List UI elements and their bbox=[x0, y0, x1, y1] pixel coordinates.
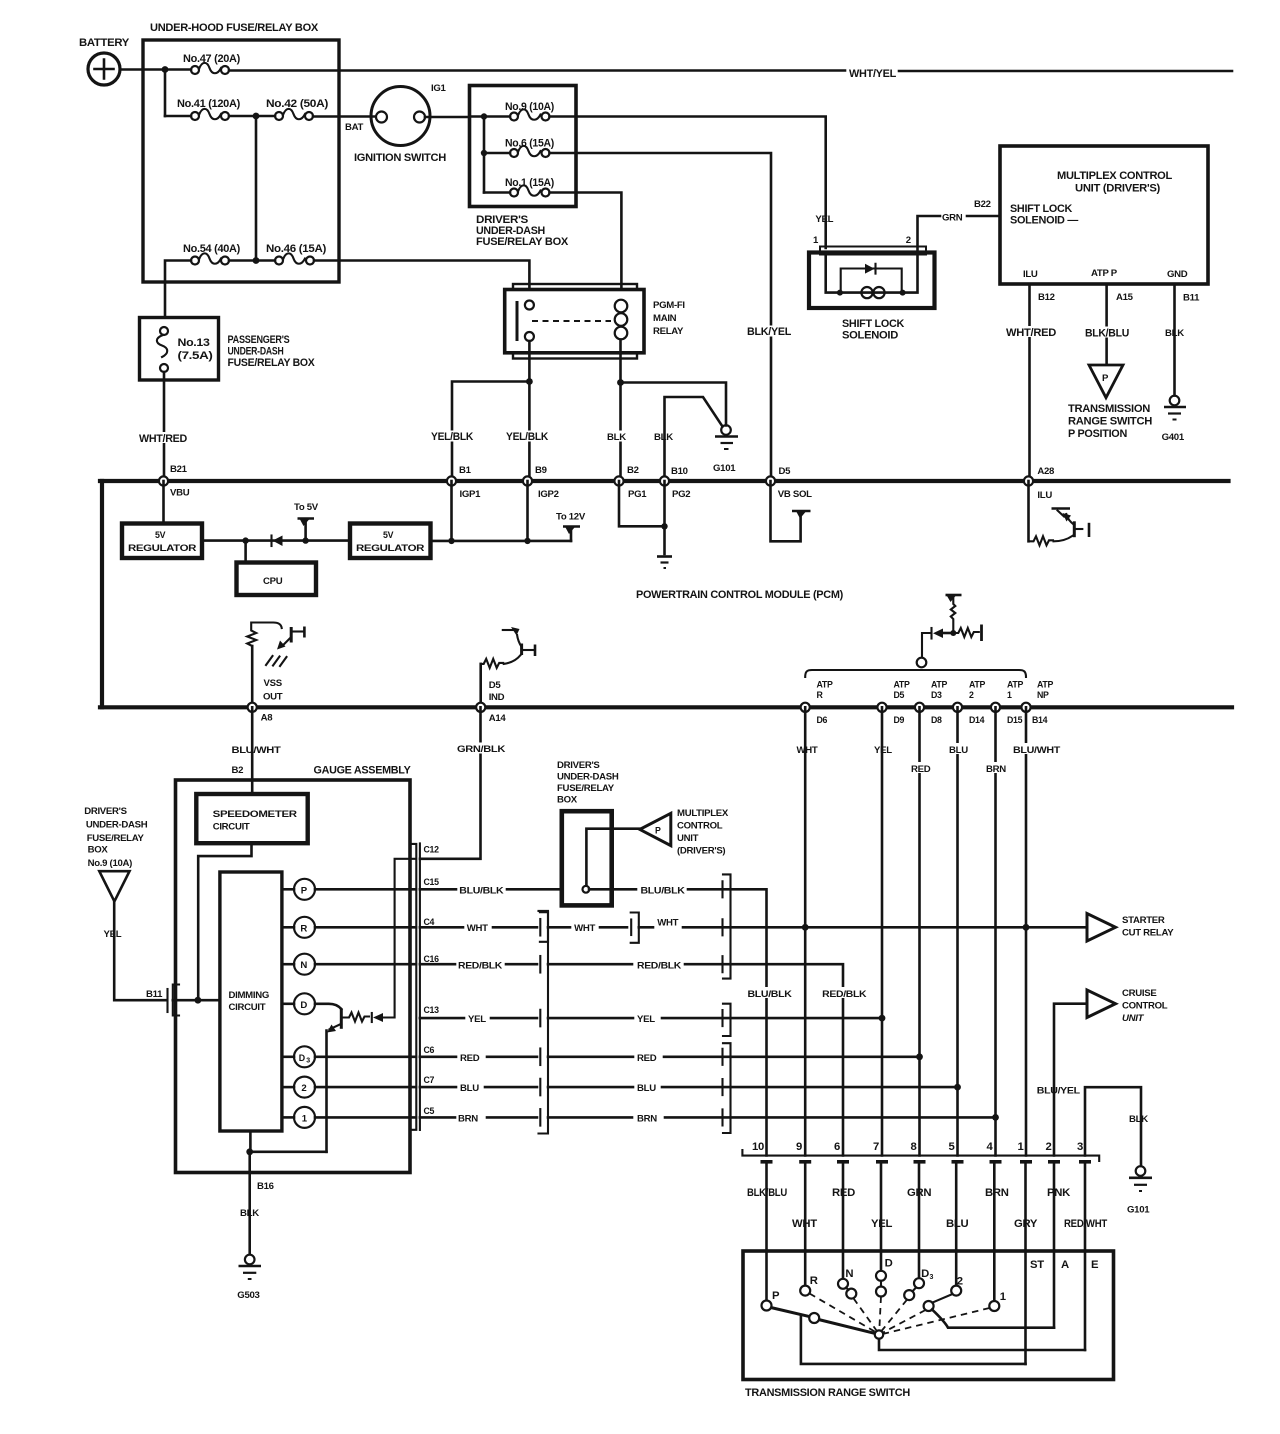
svg-text:BRN: BRN bbox=[458, 1113, 478, 1124]
svg-text:A15: A15 bbox=[1116, 292, 1134, 303]
svg-text:(7.5A): (7.5A) bbox=[178, 350, 214, 362]
svg-text:10: 10 bbox=[752, 1141, 764, 1153]
svg-text:NP: NP bbox=[1037, 690, 1049, 700]
fuse No.42 (50A) bbox=[266, 98, 329, 120]
svg-text:To 12V: To 12V bbox=[556, 512, 586, 523]
To 12V tap symbol bbox=[556, 512, 586, 541]
link D upper lower bbox=[880, 1281, 882, 1287]
svg-text:YEL: YEL bbox=[104, 929, 122, 940]
dimmer transistor bbox=[315, 859, 416, 1152]
pin C13 row YEL bbox=[420, 1005, 537, 1025]
fuse No.13 (7.5A) bbox=[157, 327, 213, 372]
wire BLU D14 down bbox=[947, 707, 971, 1155]
svg-text:CONTROL: CONTROL bbox=[677, 821, 723, 832]
svg-text:B22: B22 bbox=[974, 199, 991, 210]
svg-text:D5: D5 bbox=[489, 680, 502, 691]
svg-text:No.9 (10A): No.9 (10A) bbox=[88, 858, 133, 869]
svg-text:BLK/BLU: BLK/BLU bbox=[1085, 328, 1129, 340]
svg-text:VB SOL: VB SOL bbox=[778, 489, 812, 500]
svg-text:BOX: BOX bbox=[557, 795, 578, 806]
wire color labels at switch bbox=[747, 1187, 1107, 1230]
wire BRN D15 down bbox=[984, 707, 1009, 1155]
wire WHT/RED multiplex ILU to PCM A28 bbox=[1005, 284, 1057, 477]
node B9 rail bbox=[524, 538, 530, 544]
wire fuse41 to fuse42 bbox=[229, 115, 275, 118]
wire row2 junction down to row3 bbox=[255, 116, 258, 261]
svg-text:TRANSMISSION: TRANSMISSION bbox=[1068, 403, 1150, 415]
svg-text:VSS: VSS bbox=[264, 678, 283, 689]
wire BLK B10 to ground G101 bbox=[654, 397, 723, 477]
in-line connector C5 bbox=[539, 1109, 541, 1126]
fuse No.46 (15A) bbox=[266, 243, 327, 265]
svg-text:FUSE/RELAY: FUSE/RELAY bbox=[87, 833, 145, 844]
svg-text:ATP: ATP bbox=[969, 680, 985, 690]
wire BLU/YEL range switch pin 3 to G101 bbox=[1037, 1086, 1148, 1166]
svg-text:IGNITION SWITCH: IGNITION SWITCH bbox=[354, 152, 446, 164]
wire IG1 to driver's under-dash box bbox=[425, 116, 470, 119]
in-line connector C4 b bbox=[631, 913, 639, 943]
svg-text:UNDER-DASH: UNDER-DASH bbox=[228, 346, 284, 358]
svg-text:5V: 5V bbox=[383, 530, 394, 540]
svg-text:GRN: GRN bbox=[942, 213, 963, 224]
svg-text:BATTERY: BATTERY bbox=[79, 37, 130, 49]
svg-text:BLK/YEL: BLK/YEL bbox=[747, 326, 791, 338]
dimmer ground rail bbox=[250, 1131, 327, 1152]
ATP pull-up network bbox=[922, 595, 982, 657]
wire BLU to ATP 2 bbox=[548, 1083, 958, 1094]
wire BLU/WHT A8 to gauge B2 bbox=[232, 707, 281, 794]
svg-text:A8: A8 bbox=[261, 713, 274, 724]
ground G401 bbox=[1162, 396, 1186, 443]
wire BLK gauge B16 to G503 bbox=[240, 1152, 274, 1254]
svg-text:B11: B11 bbox=[1183, 293, 1200, 304]
node dimmer ground junction bbox=[246, 1148, 253, 1155]
wire stubs connector to switch bbox=[767, 1164, 1086, 1364]
svg-text:R: R bbox=[817, 690, 824, 700]
svg-text:C12: C12 bbox=[424, 845, 440, 855]
pin D6 ATP R bbox=[801, 680, 833, 726]
svg-text:ILU: ILU bbox=[1037, 490, 1052, 501]
CPU bbox=[237, 541, 317, 595]
svg-text:GRY: GRY bbox=[1014, 1218, 1038, 1230]
pin B9 IGP2 bbox=[523, 465, 559, 500]
svg-text:CPU: CPU bbox=[263, 576, 283, 587]
pin B1 IGP1 bbox=[447, 465, 481, 500]
wire battery to under-hood box bbox=[120, 68, 165, 71]
driver's under-dash box (C12 pass-through) bbox=[557, 760, 619, 905]
PCM left edge bbox=[100, 481, 104, 707]
svg-text:R: R bbox=[300, 923, 307, 934]
svg-text:BLK: BLK bbox=[240, 1208, 259, 1219]
svg-text:A14: A14 bbox=[489, 713, 507, 724]
pin C7 row BLU bbox=[420, 1075, 537, 1094]
svg-text:2: 2 bbox=[969, 690, 974, 700]
speedometer circuit box bbox=[196, 794, 307, 843]
battery bbox=[79, 37, 130, 85]
svg-text:No.9 (10A): No.9 (10A) bbox=[505, 101, 554, 113]
dimming circuit box bbox=[220, 872, 282, 1131]
svg-text:BRN: BRN bbox=[986, 764, 1006, 775]
inner contact N side bbox=[846, 1289, 856, 1299]
in-line connector C4 a bbox=[540, 912, 548, 942]
passenger's under-dash fuse/relay box bbox=[140, 318, 316, 381]
wire fuse46 to PGM-FI relay contact bbox=[314, 261, 529, 301]
indicator N bbox=[282, 954, 416, 975]
svg-text:IG1: IG1 bbox=[431, 83, 447, 94]
svg-text:DRIVER'S: DRIVER'S bbox=[557, 760, 600, 771]
wire junction drop to row 2 bbox=[164, 70, 167, 117]
svg-text:1: 1 bbox=[1007, 690, 1012, 700]
svg-text:GRN/BLK: GRN/BLK bbox=[457, 744, 505, 755]
wire coil branch to ground G101 bbox=[621, 383, 727, 426]
contact D upper bbox=[876, 1271, 886, 1281]
svg-text:8: 8 bbox=[911, 1141, 917, 1153]
svg-text:RELAY: RELAY bbox=[653, 326, 684, 337]
indicator D bbox=[282, 993, 315, 1014]
svg-text:D9: D9 bbox=[894, 715, 905, 725]
svg-text:No.54 (40A): No.54 (40A) bbox=[183, 243, 241, 255]
wire GRN solenoid pin2 to multiplex B22 bbox=[918, 199, 1001, 254]
svg-text:MULTIPLEX CONTROL: MULTIPLEX CONTROL bbox=[1057, 170, 1172, 182]
svg-text:MAIN: MAIN bbox=[653, 313, 677, 324]
svg-text:P: P bbox=[655, 826, 661, 836]
svg-text:YEL/BLK: YEL/BLK bbox=[506, 431, 549, 443]
diode CPU rail bbox=[246, 536, 306, 547]
svg-text:UNDER-HOOD FUSE/RELAY BOX: UNDER-HOOD FUSE/RELAY BOX bbox=[150, 22, 319, 34]
svg-text:BLK: BLK bbox=[1129, 1114, 1148, 1125]
fuse feed triangle bbox=[99, 871, 129, 901]
contact D lower bbox=[876, 1287, 886, 1297]
node B2/B10 ground join bbox=[661, 523, 667, 529]
svg-text:No.6 (15A): No.6 (15A) bbox=[505, 138, 554, 150]
indicator R bbox=[282, 917, 416, 938]
svg-text:FUSE/RELAY: FUSE/RELAY bbox=[557, 783, 615, 794]
svg-text:GRN: GRN bbox=[907, 1187, 931, 1199]
link N to inner bbox=[846, 1288, 849, 1291]
svg-text:WHT/RED: WHT/RED bbox=[139, 433, 187, 445]
wire relay coil to B2 bbox=[605, 340, 629, 478]
svg-text:C7: C7 bbox=[424, 1075, 435, 1085]
svg-text:ATP: ATP bbox=[1007, 680, 1023, 690]
node row3 junction bbox=[253, 257, 260, 264]
svg-text:YEL: YEL bbox=[871, 1218, 892, 1230]
svg-text:BLU/BLK: BLU/BLK bbox=[459, 886, 503, 897]
node driver's box feed row1 bbox=[481, 113, 487, 119]
pin A8 bbox=[248, 703, 274, 724]
wire WHT connector link bbox=[548, 923, 627, 934]
svg-text:DIMMING: DIMMING bbox=[229, 990, 270, 1001]
svg-text:PG1: PG1 bbox=[628, 489, 647, 500]
PGM-FI main relay bbox=[505, 284, 686, 359]
fuse No.6 (15A) bbox=[484, 138, 554, 158]
svg-text:3: 3 bbox=[930, 1274, 934, 1281]
svg-text:B14: B14 bbox=[1032, 715, 1048, 725]
svg-text:C4: C4 bbox=[424, 917, 435, 927]
svg-text:B9: B9 bbox=[535, 465, 547, 476]
indicator 1 bbox=[282, 1107, 416, 1128]
wire BLU/BLK to range switch pin 10 bbox=[612, 886, 767, 1156]
fuse No.41 (120A) bbox=[165, 98, 241, 120]
svg-text:BOX: BOX bbox=[88, 845, 109, 856]
gauge connector strip bbox=[411, 843, 420, 1130]
connector B11 bbox=[146, 985, 220, 1016]
svg-text:POWERTRAIN CONTROL MODULE (PCM: POWERTRAIN CONTROL MODULE (PCM) bbox=[636, 589, 844, 601]
svg-text:SPEEDOMETER: SPEEDOMETER bbox=[213, 809, 297, 820]
transmission range switch box bbox=[743, 1251, 1114, 1399]
svg-text:WHT: WHT bbox=[574, 923, 595, 934]
svg-text:IGP2: IGP2 bbox=[538, 489, 559, 500]
wire WHT to starter cut relay bbox=[639, 918, 1087, 929]
svg-text:CIRCUIT: CIRCUIT bbox=[213, 822, 250, 833]
svg-text:D: D bbox=[300, 1000, 307, 1011]
svg-text:PGM-FI: PGM-FI bbox=[653, 300, 685, 311]
in-line connector C6 bbox=[539, 1049, 541, 1066]
transmission range switch P position triangle bbox=[1068, 365, 1152, 440]
svg-text:RED/BLK: RED/BLK bbox=[637, 960, 681, 971]
svg-text:FUSE/RELAY BOX: FUSE/RELAY BOX bbox=[476, 236, 569, 248]
wire regulator1 to rail bbox=[202, 539, 246, 542]
fuse No.54 (40A) bbox=[183, 243, 241, 265]
wire pivot to pin 3 E bbox=[879, 1339, 1085, 1350]
To 5V tap symbol bbox=[294, 502, 319, 541]
svg-text:1: 1 bbox=[1000, 1291, 1006, 1303]
svg-text:No.41 (120A): No.41 (120A) bbox=[177, 98, 241, 110]
svg-text:6: 6 bbox=[834, 1141, 840, 1153]
node WHT to ATP R bbox=[802, 924, 809, 931]
svg-text:SHIFT LOCK: SHIFT LOCK bbox=[842, 318, 905, 330]
node dimmer feed junction bbox=[195, 997, 202, 1004]
wire fuse54 to fuse46 bbox=[229, 259, 275, 262]
svg-text:9: 9 bbox=[796, 1141, 802, 1153]
inner contact P side bbox=[809, 1313, 819, 1323]
svg-text:UNIT (DRIVER'S): UNIT (DRIVER'S) bbox=[1075, 183, 1161, 195]
pin C5 row BRN bbox=[420, 1106, 537, 1124]
node relay contact branch bbox=[526, 378, 533, 385]
pin B14 ATP NP bbox=[1021, 680, 1053, 726]
svg-text:YEL: YEL bbox=[637, 1014, 655, 1025]
svg-text:CUT RELAY: CUT RELAY bbox=[1122, 928, 1174, 939]
node To 5V tap bbox=[302, 537, 308, 543]
node battery feed junction bbox=[162, 66, 169, 73]
wire B2 B10 ground join bbox=[619, 481, 665, 554]
rotor P chain bbox=[771, 1308, 875, 1334]
wire WHT D6 down bbox=[797, 707, 818, 1155]
svg-text:YEL: YEL bbox=[815, 214, 833, 225]
link D3 to inner bbox=[913, 1288, 917, 1292]
ATP bracket bbox=[805, 658, 1026, 677]
ground G503 bbox=[237, 1255, 261, 1301]
pin C4 row WHT bbox=[420, 917, 537, 934]
svg-text:WHT: WHT bbox=[657, 918, 678, 929]
ground G101 (range switch) bbox=[1127, 1166, 1152, 1215]
contact D3 bbox=[914, 1278, 924, 1288]
wire RED/BLK to range switch pin 6 bbox=[548, 960, 867, 1155]
pin D5 VB SOL bbox=[766, 466, 812, 500]
svg-text:C5: C5 bbox=[424, 1106, 435, 1116]
svg-text:BLU/WHT: BLU/WHT bbox=[1013, 745, 1060, 756]
svg-text:B16: B16 bbox=[257, 1181, 274, 1192]
connector pin dashes bbox=[761, 1160, 1092, 1164]
svg-text:D15: D15 bbox=[1007, 715, 1023, 725]
5V regulator 2 bbox=[350, 524, 431, 559]
wire YEL dimmer feed bbox=[104, 901, 166, 1000]
svg-text:D5: D5 bbox=[779, 466, 792, 477]
fuse No.1 (15A) bbox=[484, 177, 554, 197]
node driver's box feed row2 bbox=[481, 150, 487, 156]
harness connector tall bracket bbox=[539, 911, 549, 1134]
svg-text:RED: RED bbox=[637, 1053, 657, 1064]
PCM bottom bus bbox=[100, 705, 1232, 709]
svg-text:(DRIVER'S): (DRIVER'S) bbox=[677, 846, 725, 857]
svg-text:5: 5 bbox=[949, 1141, 955, 1153]
svg-text:BLK/BLU: BLK/BLU bbox=[747, 1187, 787, 1199]
wire YEL to ATP D5 bbox=[548, 1014, 882, 1025]
svg-text:D3: D3 bbox=[931, 690, 942, 700]
svg-text:G503: G503 bbox=[237, 1290, 259, 1301]
svg-text:7: 7 bbox=[873, 1141, 879, 1153]
wire RED D8 down bbox=[909, 707, 934, 1155]
svg-text:RANGE SWITCH: RANGE SWITCH bbox=[1068, 416, 1152, 428]
wire WHT/YEL fuse47 to right edge bbox=[229, 68, 1232, 80]
svg-text:B11: B11 bbox=[146, 989, 163, 1000]
driver's under-dash box No.9 labels bbox=[84, 806, 148, 869]
svg-text:P: P bbox=[301, 885, 308, 896]
svg-text:UNIT: UNIT bbox=[1122, 1013, 1145, 1024]
svg-text:E: E bbox=[1091, 1259, 1099, 1271]
svg-text:CIRCUIT: CIRCUIT bbox=[229, 1002, 266, 1013]
svg-text:BLU/BLK: BLU/BLK bbox=[748, 989, 792, 1000]
wire fuse42 to ignition switch BAT bbox=[313, 115, 376, 118]
svg-text:REGULATOR: REGULATOR bbox=[128, 543, 197, 553]
svg-text:SHIFT LOCK: SHIFT LOCK bbox=[1010, 203, 1073, 215]
node relay coil ground branch bbox=[617, 379, 624, 386]
wire B1 drop bbox=[450, 481, 453, 541]
svg-text:RED/BLK: RED/BLK bbox=[822, 989, 866, 1000]
svg-text:N: N bbox=[845, 1268, 853, 1280]
driver's under-dash fuse/relay box (top) bbox=[470, 86, 577, 249]
svg-text:P: P bbox=[772, 1290, 780, 1302]
pin D8 ATP D3 bbox=[915, 680, 948, 726]
svg-text:WHT/RED: WHT/RED bbox=[1006, 327, 1056, 339]
svg-text:SOLENOID —: SOLENOID — bbox=[1010, 215, 1079, 227]
PCM top bus bbox=[100, 479, 1229, 483]
contact 2 bbox=[951, 1286, 961, 1296]
node CPU feed bbox=[242, 537, 248, 543]
svg-text:PG2: PG2 bbox=[672, 489, 690, 500]
pin A14 bbox=[476, 703, 506, 724]
svg-text:WHT: WHT bbox=[792, 1218, 817, 1230]
wire B9 drop bbox=[526, 481, 529, 541]
svg-text:WHT: WHT bbox=[467, 923, 488, 934]
pin C15 row BLU/BLK bbox=[420, 877, 562, 897]
wire GRN/BLK A14 to gauge C12 bbox=[420, 707, 506, 859]
indicator D3 bbox=[282, 1046, 416, 1067]
svg-text:C16: C16 bbox=[424, 954, 440, 964]
svg-text:4: 4 bbox=[987, 1141, 994, 1153]
svg-text:ATP P: ATP P bbox=[1091, 268, 1118, 279]
svg-text:ST: ST bbox=[1030, 1259, 1044, 1271]
pin D15 ATP 1 bbox=[991, 680, 1024, 726]
svg-text:DRIVER'S: DRIVER'S bbox=[84, 806, 127, 817]
starter cut relay arrow bbox=[1087, 914, 1174, 942]
pin C16 row RED/BLK bbox=[420, 954, 537, 971]
contact P bbox=[762, 1301, 772, 1311]
wire P chain to pin 1 ST bbox=[801, 1315, 1026, 1364]
svg-text:G101: G101 bbox=[713, 463, 736, 474]
5V regulator 1 bbox=[122, 481, 202, 558]
svg-text:3: 3 bbox=[306, 1058, 310, 1065]
svg-text:GAUGE ASSEMBLY: GAUGE ASSEMBLY bbox=[314, 765, 412, 777]
wire regulator2 to B1/B9 rail bbox=[431, 540, 572, 543]
pin D9 ATP D5 bbox=[877, 680, 910, 726]
svg-text:P POSITION: P POSITION bbox=[1068, 428, 1127, 440]
svg-text:UNDER-DASH: UNDER-DASH bbox=[86, 820, 148, 831]
svg-text:D: D bbox=[299, 1053, 305, 1063]
svg-text:ILU: ILU bbox=[1023, 269, 1038, 280]
svg-text:STARTER: STARTER bbox=[1122, 915, 1165, 926]
indicator 2 bbox=[282, 1077, 416, 1098]
svg-text:C15: C15 bbox=[424, 877, 440, 887]
svg-text:D5: D5 bbox=[894, 690, 905, 700]
svg-text:BLU: BLU bbox=[460, 1083, 479, 1094]
svg-text:WHT: WHT bbox=[797, 745, 818, 756]
svg-text:RED: RED bbox=[911, 764, 931, 775]
ground G101 (PGM-FI) bbox=[713, 425, 738, 474]
node BLU/WHT to starter bbox=[1023, 924, 1030, 931]
svg-text:2: 2 bbox=[301, 1083, 306, 1094]
contact N bbox=[838, 1279, 848, 1289]
node BLU junction bbox=[954, 1084, 961, 1091]
svg-text:BLK: BLK bbox=[607, 432, 626, 443]
svg-text:CONTROL: CONTROL bbox=[1122, 1001, 1168, 1012]
wire relay contact to B1/B9 bbox=[528, 341, 531, 477]
svg-text:A: A bbox=[1061, 1259, 1069, 1271]
node YEL junction bbox=[879, 1015, 886, 1022]
wire YEL/BLK branch to B1 bbox=[430, 382, 549, 478]
svg-text:YEL/BLK: YEL/BLK bbox=[431, 431, 474, 443]
pin C6 row RED bbox=[420, 1045, 537, 1064]
svg-text:2: 2 bbox=[1046, 1141, 1052, 1153]
multiplex control unit triangle bbox=[612, 808, 729, 857]
wire speedometer to dimmer feed bbox=[198, 843, 251, 1000]
svg-text:N: N bbox=[300, 960, 307, 971]
svg-text:To 5V: To 5V bbox=[294, 502, 319, 513]
wire PNK cruise to range switch pin 2 bbox=[1054, 1004, 1087, 1156]
fuse No.9 (10A) bbox=[484, 101, 554, 121]
svg-text:BRN: BRN bbox=[985, 1187, 1009, 1199]
node row2 junction bbox=[253, 113, 260, 120]
multiplex control unit (driver's) box bbox=[1000, 146, 1208, 284]
position labels bbox=[772, 1258, 1099, 1304]
node B1 rail bbox=[448, 538, 454, 544]
pin B2 PG1 bbox=[614, 465, 647, 500]
svg-text:RED: RED bbox=[832, 1187, 855, 1199]
indicator P bbox=[282, 879, 416, 900]
wire feed inside driver's box bbox=[470, 117, 485, 193]
ground PCM power ground bbox=[657, 557, 672, 569]
svg-text:B2: B2 bbox=[232, 765, 244, 776]
svg-text:SOLENOID: SOLENOID bbox=[842, 330, 898, 342]
pin D14 ATP 2 bbox=[953, 680, 986, 726]
pin A28 ILU bbox=[1024, 466, 1055, 501]
wire YEL D9 down bbox=[874, 707, 892, 1155]
PCM side connector brackets bbox=[723, 874, 731, 1133]
svg-text:VBU: VBU bbox=[170, 488, 190, 499]
svg-text:2: 2 bbox=[906, 235, 911, 246]
wire inner 2 to pin 2 A bbox=[932, 1310, 1054, 1328]
svg-text:CRUISE: CRUISE bbox=[1122, 988, 1157, 999]
svg-text:TRANSMISSION RANGE SWITCH: TRANSMISSION RANGE SWITCH bbox=[745, 1387, 910, 1399]
